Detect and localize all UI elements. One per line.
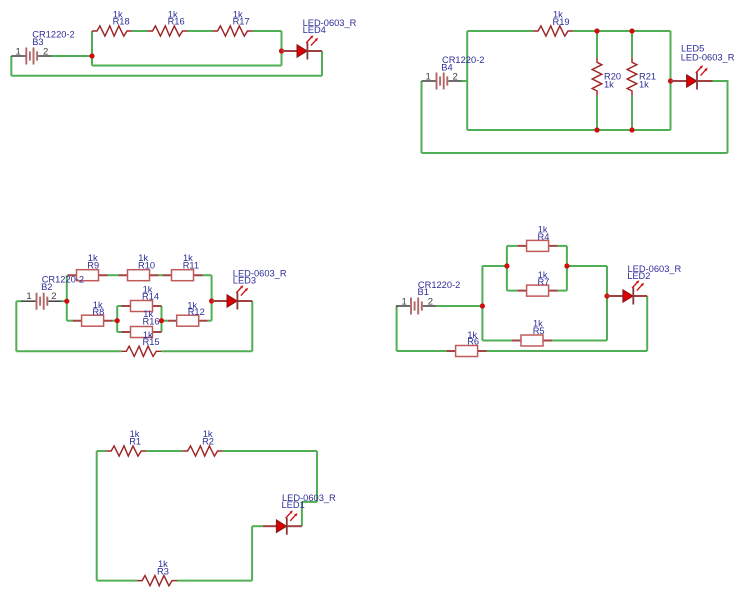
svg-text:LED2: LED2 xyxy=(627,271,650,281)
resistor R3 xyxy=(137,576,177,586)
resistor R15 xyxy=(121,346,161,356)
wire R8 to bracket node xyxy=(113,320,118,322)
svg-text:R3: R3 xyxy=(157,567,169,577)
wire left rail vertical xyxy=(466,31,468,130)
junction node R21 top xyxy=(629,28,634,33)
resistor R18 xyxy=(92,26,132,36)
junction node bracket right xyxy=(564,263,569,268)
resistor R7 xyxy=(518,285,558,296)
wire right rail vertical xyxy=(670,31,672,130)
wire LED4 anode lead xyxy=(282,50,299,52)
svg-text:R15: R15 xyxy=(143,337,160,347)
wire bottom row right of R3 xyxy=(177,580,252,582)
svg-text:R14: R14 xyxy=(142,291,159,301)
junction node bracket left xyxy=(115,318,120,323)
wire LED4 cathode down xyxy=(321,51,323,76)
junction node bracket left xyxy=(504,263,509,268)
svg-text:1: 1 xyxy=(26,291,31,302)
wire top row segment R10-R11 xyxy=(159,274,163,276)
svg-text:R17: R17 xyxy=(233,17,250,27)
wire parallel bracket right xyxy=(566,246,568,291)
wire parallel bracket left xyxy=(506,246,508,291)
svg-text:R5: R5 xyxy=(533,326,545,336)
resistor R8 xyxy=(73,315,113,326)
wire bracket to R14 xyxy=(117,305,121,307)
svg-text:R18: R18 xyxy=(113,17,130,27)
junction node R21 bottom xyxy=(629,127,634,132)
junction node at LED3 anode xyxy=(209,298,214,303)
wire LED3 cathode lead xyxy=(237,300,252,302)
wire top row segment R16-R17 xyxy=(188,30,213,32)
wire LED5 anode lead xyxy=(671,80,689,82)
resistor R21 xyxy=(627,58,637,96)
wire bracket to R4 xyxy=(507,245,518,247)
wire battery B1 pin1 down xyxy=(396,306,398,351)
svg-text:2: 2 xyxy=(453,71,458,82)
svg-text:R2: R2 xyxy=(202,436,214,446)
svg-text:R16: R16 xyxy=(143,316,160,326)
junction node R20 top xyxy=(594,28,599,33)
wire right edge vertical xyxy=(316,451,318,502)
wire left branch vertical xyxy=(66,275,68,321)
LED LED1 xyxy=(277,510,298,534)
wire LED5 cathode to right edge xyxy=(713,81,728,153)
wire top row left corner to R1 xyxy=(97,450,107,452)
wire LED2 cathode down xyxy=(646,296,648,351)
LED LED4 xyxy=(297,35,318,59)
wire battery B1 to node xyxy=(436,305,482,307)
resistor R6 xyxy=(447,346,487,357)
wire left branch vertical xyxy=(91,31,93,66)
wire R21 top stub xyxy=(631,31,633,58)
wire bypass row xyxy=(92,65,282,67)
resistor R14 xyxy=(122,301,162,312)
wire top rail right of R19 xyxy=(573,30,671,32)
resistor R4 xyxy=(518,240,558,251)
wire right branch vertical xyxy=(211,275,213,321)
svg-text:1k: 1k xyxy=(604,79,614,89)
wire LED1 anode down xyxy=(251,526,253,580)
wire LED3 cathode down xyxy=(251,301,253,351)
svg-text:B3: B3 xyxy=(32,37,43,47)
wire step down to LED1 cathode xyxy=(301,502,303,526)
svg-text:LED3: LED3 xyxy=(233,275,256,285)
svg-text:R1: R1 xyxy=(129,436,141,446)
wire feed to bracket left xyxy=(482,265,507,267)
svg-text:1: 1 xyxy=(402,297,407,308)
wire LED1 cathode lead xyxy=(287,525,302,527)
wire top row segment R1-R2 xyxy=(146,450,182,452)
svg-text:LED4: LED4 xyxy=(303,25,326,35)
svg-text:R11: R11 xyxy=(183,260,199,270)
svg-text:R7: R7 xyxy=(538,277,550,287)
wire top row segment R11 to corner xyxy=(203,274,212,276)
wire left edge vertical xyxy=(96,451,98,581)
battery B2 xyxy=(22,293,62,310)
resistor R16 xyxy=(148,26,188,36)
resistor R9 xyxy=(68,270,108,281)
svg-text:1: 1 xyxy=(426,71,431,82)
wire R12 to right branch xyxy=(208,320,212,322)
wire bracket to R16 xyxy=(117,331,121,333)
LED LED2 xyxy=(623,280,644,304)
svg-text:R16: R16 xyxy=(168,17,185,27)
junction node at LED4 anode xyxy=(279,48,284,53)
wire battery B4 to left rail xyxy=(462,80,468,82)
wire bottom row left of R15 xyxy=(16,350,121,352)
svg-text:R6: R6 xyxy=(467,337,479,347)
junction node at B2 branch xyxy=(64,299,69,304)
wire battery B3 to node xyxy=(52,55,93,57)
wire bottom row left of R6 xyxy=(397,350,447,352)
wire bracket node to R12 xyxy=(162,320,168,322)
resistor R1 xyxy=(106,446,146,456)
wire R21 bottom stub xyxy=(631,96,633,130)
wire LED5 cathode lead xyxy=(697,80,713,82)
resistor R11 xyxy=(163,270,203,281)
svg-text:LED1: LED1 xyxy=(282,500,305,510)
battery B4 xyxy=(422,73,462,90)
wire bottom row left of R3 xyxy=(97,580,137,582)
wire LED3 anode lead xyxy=(212,300,229,302)
junction node at LED2 anode xyxy=(604,293,609,298)
wire LED branch vertical xyxy=(606,266,608,341)
wire top row R2 to right corner xyxy=(223,450,317,452)
LED LED3 xyxy=(227,285,248,309)
wire LED1 anode lead xyxy=(263,525,278,527)
resistor R12 xyxy=(168,315,208,326)
wire R7 to bracket right xyxy=(558,290,567,292)
wire parallel bracket left xyxy=(116,306,118,332)
resistor R17 xyxy=(213,26,253,36)
wire R4 to bracket right xyxy=(558,245,567,247)
wire battery B2 left stub xyxy=(16,300,22,302)
wire R20 top stub xyxy=(596,31,598,58)
battery B3 xyxy=(11,48,51,65)
resistor R5 xyxy=(512,335,552,346)
wire battery branch vertical xyxy=(481,266,483,341)
svg-text:R19: R19 xyxy=(553,17,570,27)
wire bottom row right of R6 xyxy=(487,350,648,352)
LED LED5 xyxy=(687,65,708,89)
wire battery B2 to node xyxy=(62,300,67,302)
wire LED2 anode lead xyxy=(607,295,624,297)
wire LED1 anode stub xyxy=(252,525,263,527)
wire bottom rail xyxy=(467,129,670,131)
svg-text:2: 2 xyxy=(51,291,56,302)
wire parallel bracket right xyxy=(161,306,163,332)
junction node R20 bottom xyxy=(594,127,599,132)
wire battery B3 pin1 down xyxy=(10,56,12,76)
wire bottom return xyxy=(422,152,728,154)
wire bottom return xyxy=(11,75,322,77)
svg-text:2: 2 xyxy=(43,46,48,57)
junction node at B1 branch xyxy=(480,303,485,308)
wire LED2 cathode lead xyxy=(633,295,647,297)
wire bottom row right of R15 xyxy=(161,350,252,352)
svg-text:1k: 1k xyxy=(639,79,649,89)
svg-text:R9: R9 xyxy=(87,260,99,270)
wire LED4 cathode lead xyxy=(307,50,322,52)
wire R8 row left xyxy=(67,320,73,322)
wire feed bracket to LED branch xyxy=(567,265,607,267)
resistor R2 xyxy=(183,446,223,456)
wire top row segment R17 to right corner xyxy=(253,30,282,32)
svg-text:R8: R8 xyxy=(92,307,104,317)
wire R5 row right xyxy=(552,340,607,342)
svg-text:R10: R10 xyxy=(138,260,155,270)
wire right branch vertical xyxy=(281,31,283,66)
svg-text:LED-0603_R: LED-0603_R xyxy=(681,53,735,63)
resistor R16 xyxy=(122,327,162,338)
junction node at B3 branch xyxy=(89,53,94,58)
wire R20 bottom stub xyxy=(596,96,598,130)
wire top rail left of R19 xyxy=(467,30,533,32)
svg-text:R12: R12 xyxy=(188,307,205,317)
svg-text:1: 1 xyxy=(16,46,21,57)
wire R5 row left xyxy=(482,340,512,342)
resistor R10 xyxy=(119,270,159,281)
wire top row segment R9-R10 xyxy=(108,274,119,276)
wire battery B4 pin1 down xyxy=(421,81,423,153)
svg-text:R4: R4 xyxy=(538,232,550,242)
junction node bracket right xyxy=(159,318,164,323)
wire step horizontal xyxy=(302,501,317,503)
svg-text:B4: B4 xyxy=(441,62,452,72)
resistor R20 xyxy=(592,58,602,96)
wire top row segment R18-R16 xyxy=(132,30,148,32)
battery B1 xyxy=(396,298,436,315)
svg-text:2: 2 xyxy=(428,297,433,308)
wire bracket to R7 xyxy=(507,290,518,292)
resistor R19 xyxy=(533,26,573,36)
wire battery B2 pin1 down xyxy=(15,301,17,351)
junction node LED5 anode xyxy=(668,78,673,83)
